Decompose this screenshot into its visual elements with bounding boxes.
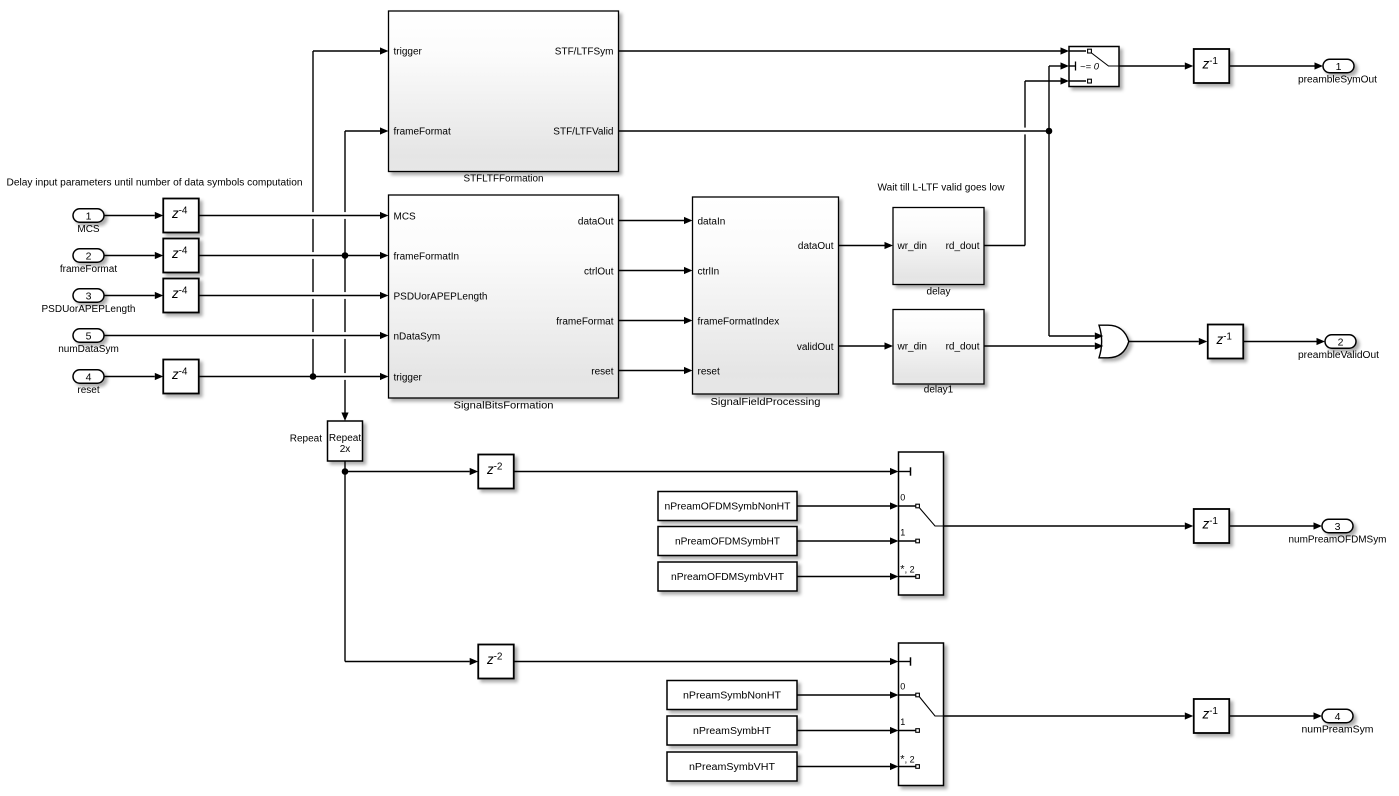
svg-text:frameFormat: frameFormat — [394, 127, 451, 138]
svg-text:nPreamOFDMSymbVHT: nPreamOFDMSymbVHT — [671, 572, 784, 583]
delay block z^-2 (preamble sym path) — [478, 645, 514, 679]
wire branch to z^-2 (upper) — [345, 468, 478, 475]
wire nPreamOFDMSymbNonHT to multiport switch — [797, 502, 899, 509]
wire z^-2 to multiport switch data input (upper) — [514, 468, 899, 475]
wire port2 to z^-4 — [104, 252, 163, 259]
svg-text:STFLTFFormation: STFLTFFormation — [464, 174, 544, 185]
wire z^-1 to output port 1 — [1230, 62, 1324, 69]
wire z^-4 to MCS input — [199, 212, 389, 219]
svg-text:-1: -1 — [1209, 516, 1218, 527]
wire Repeat output down to branch dot — [342, 461, 349, 475]
svg-text:2x: 2x — [340, 444, 351, 455]
svg-text:delay1: delay1 — [924, 385, 954, 396]
svg-text:2: 2 — [1338, 336, 1344, 348]
svg-text:4: 4 — [86, 371, 92, 383]
svg-text:frameFormatIn: frameFormatIn — [394, 251, 460, 262]
wire port4 to z^-4 — [104, 373, 163, 380]
wire switch output to z^-1 — [1119, 62, 1193, 69]
wire branch down and right to z^-2 (lower) — [345, 472, 478, 666]
wire port5 to nDataSym input — [104, 332, 389, 339]
svg-text:dataOut: dataOut — [798, 241, 834, 252]
svg-text:nPreamSymbHT: nPreamSymbHT — [693, 726, 771, 737]
wire SignalBits ctrlOut to SFP ctrlIn — [619, 267, 693, 274]
unit delay z^-1 (numPreamOFDMSym path) — [1194, 509, 1230, 543]
svg-text:wr_din: wr_din — [897, 342, 927, 353]
wire z^-1 to output port 3 — [1230, 522, 1323, 529]
svg-text:dataIn: dataIn — [698, 216, 726, 227]
wire nPreamSymbNonHT to multiport switch — [797, 691, 899, 698]
svg-text:rd_dout: rd_dout — [946, 342, 980, 353]
output port 4 (numPreamSym) — [1302, 709, 1374, 735]
wire frameFormat net: up from frameFormatIn wire to STFLTFFormation frameFormat — [345, 127, 389, 255]
svg-text:-1: -1 — [1209, 56, 1218, 67]
svg-text:4: 4 — [1335, 711, 1341, 723]
input port 1 (MCS) — [73, 209, 104, 235]
svg-text:nDataSym: nDataSym — [394, 331, 441, 342]
constant nPreamSymbHT — [667, 716, 797, 745]
svg-text:preambleSymOut: preambleSymOut — [1298, 75, 1377, 86]
subsystem SignalBitsFormation — [389, 195, 619, 412]
svg-text:0: 0 — [900, 682, 905, 692]
wire STF/LTFSym to switch input 1 — [619, 47, 1070, 54]
unit delay z^-1 (preambleValidOut path) — [1208, 325, 1244, 359]
constant nPreamOFDMSymbHT — [658, 527, 797, 556]
repeat block (Repeat 2x) — [290, 421, 363, 461]
output port 3 (numPreamOFDMSym) — [1289, 519, 1387, 545]
output port 2 (preambleValidOut) — [1298, 335, 1379, 361]
delay block z^-4 (reset path) — [163, 360, 199, 394]
svg-text:Delay input parameters until n: Delay input parameters until number of d… — [7, 178, 303, 189]
svg-text:1: 1 — [86, 210, 92, 222]
wire delay rd_dout up to switch input 3 — [984, 77, 1069, 245]
wire OR gate output to z^-1 — [1129, 338, 1208, 345]
constant nPreamOFDMSymbNonHT — [658, 492, 797, 521]
svg-text:reset: reset — [591, 366, 613, 377]
svg-text:rd_dout: rd_dout — [946, 241, 980, 252]
svg-text:-4: -4 — [179, 206, 188, 217]
svg-text:-4: -4 — [179, 286, 188, 297]
constant nPreamSymbNonHT — [667, 681, 797, 710]
svg-text:-1: -1 — [1209, 706, 1218, 717]
svg-text:dataOut: dataOut — [578, 216, 614, 227]
wire multiport switch to z^-1 (numPreamOFDMSym) — [944, 522, 1194, 529]
unit delay z^-1 (numPreamSym path) — [1194, 699, 1230, 733]
svg-text:1: 1 — [900, 528, 905, 538]
svg-text:-2: -2 — [494, 652, 503, 663]
svg-text:Repeat: Repeat — [329, 433, 361, 444]
svg-text:0: 0 — [900, 493, 905, 503]
svg-text:1: 1 — [900, 717, 905, 727]
wire z^-1 to output port 2 — [1244, 338, 1326, 345]
svg-text:STF/LTFSym: STF/LTFSym — [555, 47, 614, 58]
wire trigger net: up from reset wire to STFLTFFormation trigger — [313, 47, 389, 376]
svg-text:-4: -4 — [179, 246, 188, 257]
svg-text:ctrlOut: ctrlOut — [584, 266, 614, 277]
svg-text:STF/LTFValid: STF/LTFValid — [553, 127, 613, 138]
svg-text:1: 1 — [1336, 61, 1342, 73]
svg-text:SignalBitsFormation: SignalBitsFormation — [454, 401, 554, 412]
wire nPreamSymbVHT to multiport switch — [797, 763, 899, 770]
svg-text:MCS: MCS — [77, 224, 100, 235]
svg-text:5: 5 — [86, 330, 92, 342]
multiport switch (numPreamSym) — [899, 643, 944, 786]
svg-text:SignalFieldProcessing: SignalFieldProcessing — [711, 397, 821, 408]
wire nPreamSymbHT to multiport switch — [797, 727, 899, 734]
constant nPreamSymbVHT — [667, 752, 797, 781]
svg-text:nPreamSymbVHT: nPreamSymbVHT — [689, 762, 775, 773]
delay block z^-4 (PSDUorAPEPLength path) — [163, 279, 199, 313]
wire multiport switch to z^-1 (numPreamSym) — [944, 712, 1194, 719]
subsystem delay1 — [893, 310, 984, 396]
svg-text:numDataSym: numDataSym — [58, 344, 119, 355]
wire SignalBits frameFormat to SFP frameFormatIndex — [619, 317, 693, 324]
delay block z^-4 (MCS path) — [163, 199, 199, 233]
input port 4 (reset) — [73, 370, 104, 396]
wire nPreamOFDMSymbVHT to multiport switch — [797, 573, 899, 580]
wire port1 to z^-4 — [104, 212, 163, 219]
svg-text:ctrlIn: ctrlIn — [698, 266, 720, 277]
svg-text:numPreamSym: numPreamSym — [1302, 725, 1374, 736]
wire port3 to z^-4 — [104, 292, 163, 299]
wire z^-2 to multiport switch data input (lower) — [514, 658, 899, 665]
wire z^-1 to output port 4 — [1230, 712, 1323, 719]
svg-text:reset: reset — [698, 366, 720, 377]
constant nPreamOFDMSymbVHT — [658, 562, 797, 591]
wire z^-4 to PSDUorAPEPLength input — [199, 292, 389, 299]
svg-text:PSDUorAPEPLength: PSDUorAPEPLength — [42, 304, 136, 315]
svg-text:wr_din: wr_din — [897, 241, 927, 252]
svg-text:frameFormat: frameFormat — [556, 316, 613, 327]
wire z^-4 to trigger input (junction at trigger net) — [199, 373, 389, 380]
subsystem delay — [893, 208, 984, 298]
wire nPreamOFDMSymbHT to multiport switch — [797, 537, 899, 544]
svg-text:*, 2: *, 2 — [900, 564, 914, 576]
svg-text:3: 3 — [86, 290, 92, 302]
svg-text:Wait till L-LTF valid goes low: Wait till L-LTF valid goes low — [878, 183, 1006, 194]
switch block (criteria ~= 0) — [1069, 47, 1119, 87]
svg-text:PSDUorAPEPLength: PSDUorAPEPLength — [394, 291, 488, 302]
OR gate (logical operator) — [1099, 325, 1129, 358]
wire SignalBits reset to SFP reset — [619, 367, 693, 374]
input port 3 (PSDUorAPEPLength) — [42, 289, 136, 315]
svg-text:nPreamOFDMSymbHT: nPreamOFDMSymbHT — [675, 537, 780, 548]
svg-text:delay: delay — [927, 287, 951, 298]
svg-text:nPreamOFDMSymbNonHT: nPreamOFDMSymbNonHT — [665, 502, 791, 513]
wire SFP dataOut to delay wr_din — [839, 242, 894, 249]
svg-text:~= 0: ~= 0 — [1080, 62, 1100, 73]
svg-text:*, 2: *, 2 — [900, 754, 914, 766]
delay block z^-4 (frameFormat path) — [163, 239, 199, 273]
output port 1 (preambleSymOut) — [1298, 59, 1377, 85]
wire SignalBits dataOut to SFP dataIn — [619, 217, 693, 224]
svg-text:trigger: trigger — [394, 372, 423, 383]
input port 5 (numDataSym) — [58, 329, 119, 355]
svg-text:validOut: validOut — [797, 342, 834, 353]
svg-text:frameFormat: frameFormat — [60, 264, 117, 275]
svg-text:-4: -4 — [179, 367, 188, 378]
svg-text:nPreamSymbNonHT: nPreamSymbNonHT — [683, 691, 781, 702]
wire frameFormat net: down to Repeat block — [341, 256, 348, 422]
wire SFP validOut to delay1 wr_din — [839, 342, 894, 349]
subsystem SignalFieldProcessing — [693, 197, 839, 408]
svg-text:frameFormatIndex: frameFormatIndex — [698, 316, 780, 327]
wire delay1 rd_dout to OR gate input 2 — [984, 342, 1103, 349]
svg-text:trigger: trigger — [394, 47, 423, 58]
svg-text:MCS: MCS — [394, 211, 417, 222]
svg-text:reset: reset — [77, 385, 99, 396]
svg-text:-2: -2 — [494, 462, 503, 473]
delay block z^-2 (OFDM sym path) — [478, 455, 514, 489]
multiport switch (numPreamOFDMSym) — [899, 452, 944, 595]
svg-text:3: 3 — [1335, 521, 1341, 533]
subsystem STFLTFFormation — [389, 11, 619, 185]
svg-text:-1: -1 — [1223, 332, 1232, 343]
svg-text:2: 2 — [86, 250, 92, 262]
svg-text:Repeat: Repeat — [290, 434, 322, 445]
svg-text:numPreamOFDMSym: numPreamOFDMSym — [1289, 535, 1387, 546]
input port 2 (frameFormat) — [60, 249, 117, 275]
wire STF/LTFValid net: right then up to switch input 2 and down to OR gate — [619, 62, 1104, 339]
wire z^-4 to frameFormatIn input (junction at frameFormat net) — [199, 252, 389, 259]
unit delay z^-1 (preambleSymOut path) — [1194, 49, 1230, 83]
svg-text:preambleValidOut: preambleValidOut — [1298, 350, 1379, 361]
